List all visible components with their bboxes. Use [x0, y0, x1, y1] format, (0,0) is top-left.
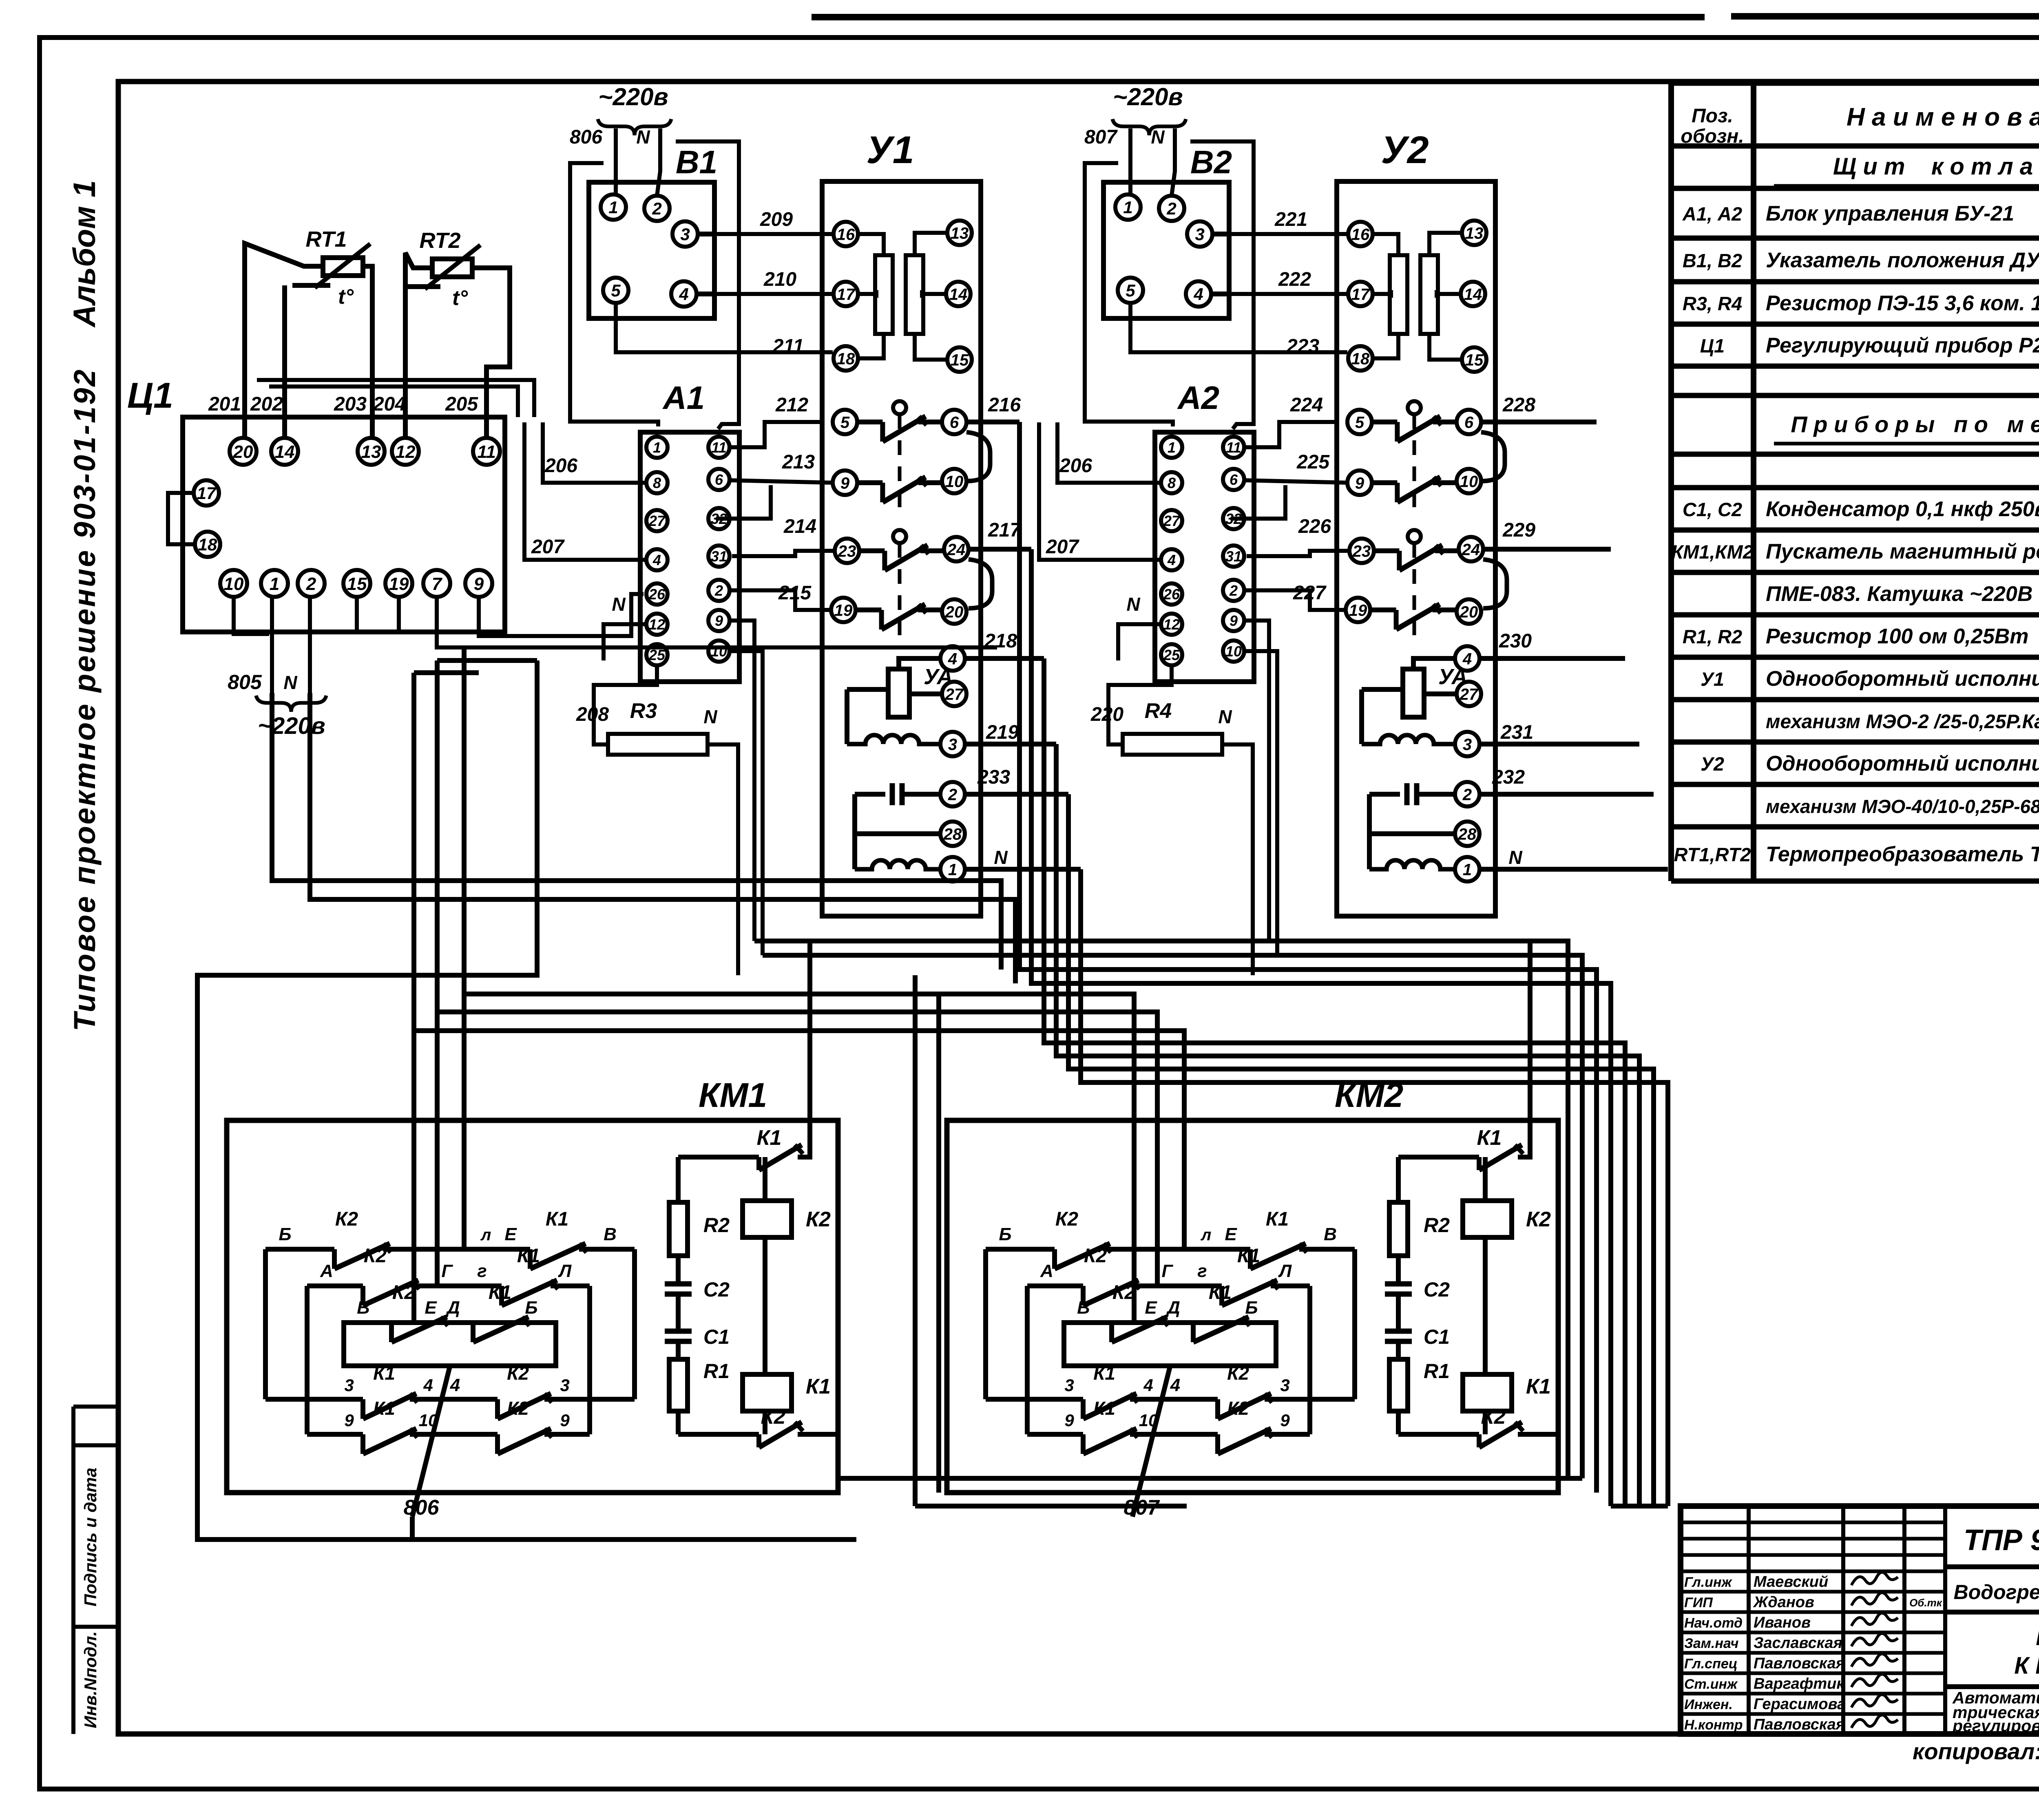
- svg-text:230: 230: [1499, 630, 1532, 652]
- svg-text:В: В: [1077, 1298, 1090, 1318]
- svg-text:К1: К1: [757, 1126, 782, 1150]
- svg-text:1: 1: [948, 861, 957, 879]
- svg-text:Ц1: Ц1: [1700, 335, 1725, 357]
- svg-text:Г: Г: [1161, 1261, 1173, 1281]
- svg-text:17: 17: [837, 285, 856, 303]
- svg-text:А: А: [1040, 1261, 1053, 1281]
- svg-text:10: 10: [945, 473, 964, 490]
- svg-text:N: N: [612, 594, 626, 615]
- svg-text:Конденсатор 0,1 нкф 250в: Конденсатор 0,1 нкф 250в: [1766, 497, 2039, 521]
- svg-text:С1: С1: [1424, 1325, 1450, 1348]
- svg-text:3: 3: [560, 1376, 569, 1395]
- svg-text:К2: К2: [507, 1363, 529, 1384]
- svg-text:Гл.спец: Гл.спец: [1684, 1656, 1738, 1672]
- svg-text:2: 2: [714, 582, 723, 599]
- svg-text:222: 222: [1278, 269, 1311, 290]
- svg-text:10: 10: [1460, 473, 1478, 490]
- svg-text:t°: t°: [452, 286, 468, 310]
- svg-text:Б: Б: [525, 1298, 537, 1318]
- svg-text:2: 2: [1229, 582, 1238, 599]
- svg-text:3: 3: [1463, 736, 1472, 753]
- svg-text:ТПР 903-01-192: ТПР 903-01-192: [1964, 1524, 2039, 1557]
- svg-text:1: 1: [270, 574, 279, 594]
- svg-text:18: 18: [837, 350, 855, 368]
- svg-text:R3, R4: R3, R4: [1683, 293, 1742, 314]
- svg-text:1: 1: [1123, 198, 1132, 217]
- svg-text:Д: Д: [445, 1298, 460, 1318]
- svg-text:24: 24: [1462, 541, 1480, 559]
- svg-text:20: 20: [233, 442, 253, 462]
- svg-text:К1: К1: [1093, 1363, 1115, 1384]
- svg-text:203: 203: [334, 393, 367, 415]
- svg-text:206: 206: [544, 455, 577, 477]
- svg-text:5: 5: [1126, 281, 1135, 300]
- svg-text:Зам.нач: Зам.нач: [1684, 1636, 1739, 1651]
- svg-text:16: 16: [837, 225, 855, 243]
- svg-text:217: 217: [988, 519, 1022, 541]
- svg-text:9: 9: [560, 1411, 570, 1430]
- svg-text:3: 3: [948, 736, 957, 753]
- svg-text:Щ и т к о т л а: Щ и т к о т л а: [1833, 153, 2033, 180]
- svg-text:К1: К1: [373, 1398, 395, 1419]
- svg-text:2: 2: [1462, 786, 1472, 804]
- svg-text:Инв.Nподл.: Инв.Nподл.: [81, 1631, 100, 1728]
- svg-text:2: 2: [652, 199, 661, 218]
- svg-text:13: 13: [951, 224, 969, 242]
- svg-text:механизм МЭО-2 /25-0,25Р.Кату: механизм МЭО-2 /25-0,25Р.Катушка-220В: [1766, 711, 2039, 733]
- svg-text:Павловская: Павловская: [1754, 1655, 1845, 1672]
- svg-text:18: 18: [1351, 350, 1370, 368]
- svg-text:4: 4: [679, 285, 688, 304]
- svg-text:обозн.: обозн.: [1681, 126, 1744, 147]
- svg-text:Варгафтик: Варгафтик: [1754, 1675, 1845, 1692]
- svg-text:20: 20: [945, 603, 964, 621]
- svg-text:3: 3: [344, 1376, 354, 1395]
- svg-text:212: 212: [775, 394, 808, 416]
- svg-text:Однооборотный исполнительный: Однооборотный исполнительный: [1766, 667, 2039, 691]
- svg-text:Л: Л: [1278, 1261, 1292, 1281]
- svg-text:К В - Г М - 10: К В - Г М - 10: [2014, 1652, 2039, 1679]
- svg-text:9: 9: [1280, 1411, 1290, 1430]
- svg-text:28: 28: [943, 825, 962, 843]
- svg-text:л: л: [1201, 1226, 1212, 1244]
- svg-text:К2: К2: [364, 1245, 387, 1267]
- svg-text:Н а и м е н о в а н и е: Н а и м е н о в а н и е: [1847, 103, 2039, 131]
- svg-text:Гл.инж: Гл.инж: [1684, 1575, 1732, 1590]
- svg-text:6: 6: [1230, 471, 1238, 488]
- svg-text:R2: R2: [703, 1214, 730, 1237]
- svg-text:Д: Д: [1165, 1298, 1180, 1318]
- svg-text:2: 2: [306, 574, 316, 594]
- svg-text:К2: К2: [1227, 1363, 1249, 1384]
- svg-text:4: 4: [1167, 552, 1176, 568]
- svg-text:9: 9: [1064, 1411, 1074, 1430]
- svg-text:20: 20: [1460, 603, 1478, 621]
- svg-text:К2: К2: [806, 1208, 831, 1231]
- svg-text:К о т е л: К о т е л: [2036, 1624, 2039, 1650]
- svg-text:17: 17: [197, 484, 217, 503]
- svg-text:В2: В2: [1190, 144, 1232, 180]
- svg-text:~220в: ~220в: [598, 83, 668, 110]
- svg-text:К2: К2: [761, 1405, 786, 1429]
- svg-text:К1: К1: [1477, 1126, 1502, 1150]
- svg-text:Однооборотный исполнительный: Однооборотный исполнительный: [1766, 752, 2039, 775]
- svg-text:К2: К2: [1227, 1398, 1249, 1419]
- svg-text:Указатель положения ДУП-М: Указатель положения ДУП-М: [1766, 249, 2039, 272]
- svg-text:6: 6: [715, 471, 723, 488]
- svg-text:19: 19: [389, 574, 409, 594]
- svg-text:RT1: RT1: [305, 227, 347, 252]
- svg-text:N: N: [1151, 126, 1165, 148]
- svg-text:8: 8: [653, 475, 661, 491]
- svg-text:23: 23: [1352, 542, 1371, 560]
- svg-text:9: 9: [715, 612, 723, 629]
- svg-text:201: 201: [208, 393, 241, 415]
- svg-text:механизм МЭО-40/10-0,25Р-68.Ка: механизм МЭО-40/10-0,25Р-68.Катушка~220В: [1766, 796, 2039, 817]
- svg-text:RT2: RT2: [419, 228, 460, 253]
- svg-text:А1: А1: [662, 380, 705, 416]
- svg-text:13: 13: [361, 442, 381, 462]
- svg-text:215: 215: [778, 582, 812, 604]
- svg-text:К2: К2: [335, 1208, 358, 1230]
- svg-text:805: 805: [228, 671, 262, 694]
- svg-text:9: 9: [1230, 612, 1238, 629]
- svg-text:12: 12: [396, 442, 416, 462]
- svg-text:17: 17: [1351, 285, 1370, 303]
- svg-text:~220в: ~220в: [1113, 83, 1183, 110]
- svg-text:К2: К2: [1084, 1245, 1107, 1267]
- svg-text:А1, А2: А1, А2: [1682, 203, 1742, 225]
- svg-text:18: 18: [198, 535, 217, 554]
- svg-text:204: 204: [373, 393, 406, 415]
- svg-text:N: N: [994, 847, 1008, 868]
- svg-text:К1: К1: [489, 1282, 511, 1303]
- svg-text:231: 231: [1500, 722, 1533, 743]
- svg-text:4: 4: [652, 552, 661, 568]
- svg-text:К1: К1: [1526, 1375, 1551, 1398]
- svg-text:3: 3: [680, 225, 690, 244]
- svg-text:П р и б о р ы п о м е с т: П р и б о р ы п о м е с т у: [1791, 411, 2039, 437]
- svg-text:R1, R2: R1, R2: [1683, 626, 1742, 647]
- svg-text:Б: Б: [999, 1224, 1011, 1244]
- svg-text:Термопреобразователь ТСП-5071: Термопреобразователь ТСП-5071: [1766, 843, 2039, 866]
- svg-text:К1: К1: [1093, 1398, 1115, 1419]
- svg-text:А2: А2: [1177, 380, 1219, 416]
- svg-text:У2: У2: [1381, 128, 1429, 172]
- svg-text:806: 806: [404, 1496, 440, 1520]
- svg-text:Жданов: Жданов: [1753, 1594, 1814, 1611]
- svg-text:209: 209: [760, 209, 793, 230]
- svg-text:10: 10: [224, 574, 244, 594]
- svg-text:R1: R1: [1424, 1360, 1450, 1383]
- svg-text:221: 221: [1274, 209, 1307, 230]
- svg-text:Нач.отд: Нач.отд: [1684, 1615, 1743, 1631]
- svg-text:4: 4: [423, 1376, 433, 1395]
- svg-text:В1, В2: В1, В2: [1683, 250, 1742, 272]
- svg-text:С2: С2: [703, 1278, 730, 1301]
- svg-text:У1: У1: [866, 128, 914, 172]
- svg-text:КМ1,КМ2: КМ1,КМ2: [1671, 541, 1753, 563]
- svg-text:R2: R2: [1424, 1214, 1450, 1237]
- svg-text:806: 806: [570, 126, 602, 148]
- svg-text:г: г: [477, 1261, 487, 1281]
- svg-text:9: 9: [344, 1411, 354, 1430]
- svg-text:К2: К2: [507, 1398, 529, 1419]
- svg-text:R1: R1: [703, 1360, 730, 1383]
- svg-text:4: 4: [1193, 285, 1203, 304]
- svg-text:2: 2: [1166, 199, 1176, 218]
- svg-text:15: 15: [951, 351, 969, 369]
- svg-text:Маевский: Маевский: [1754, 1573, 1828, 1590]
- svg-text:14: 14: [949, 285, 968, 303]
- svg-text:28: 28: [1458, 825, 1477, 843]
- svg-text:19: 19: [1349, 601, 1367, 619]
- svg-text:ПМЕ-083. Катушка ~220В: ПМЕ-083. Катушка ~220В: [1766, 582, 2032, 606]
- svg-text:К1: К1: [1209, 1282, 1232, 1303]
- svg-text:207: 207: [1046, 536, 1079, 558]
- svg-text:1: 1: [1168, 439, 1176, 456]
- svg-text:Герасимова: Герасимова: [1754, 1696, 1846, 1713]
- svg-text:N: N: [1126, 594, 1140, 615]
- svg-text:Б: Б: [1245, 1298, 1258, 1318]
- svg-text:К2: К2: [1481, 1405, 1506, 1429]
- svg-text:R4: R4: [1145, 699, 1172, 723]
- svg-text:1: 1: [653, 439, 661, 456]
- svg-text:Е: Е: [1145, 1298, 1157, 1318]
- svg-text:4: 4: [1143, 1376, 1153, 1395]
- svg-text:210: 210: [763, 269, 796, 290]
- svg-text:3: 3: [1064, 1376, 1074, 1395]
- svg-text:31: 31: [711, 548, 727, 565]
- svg-text:У2: У2: [1701, 753, 1724, 775]
- svg-text:RT1,RT2: RT1,RT2: [1674, 844, 1751, 866]
- svg-text:202: 202: [250, 393, 283, 415]
- svg-text:N: N: [636, 126, 650, 148]
- svg-text:В: В: [604, 1224, 617, 1244]
- svg-text:9: 9: [840, 474, 850, 492]
- svg-text:5: 5: [840, 413, 850, 431]
- svg-text:4: 4: [450, 1375, 460, 1395]
- svg-text:25: 25: [1163, 647, 1180, 663]
- svg-text:С2: С2: [1424, 1278, 1450, 1301]
- svg-text:11: 11: [711, 439, 726, 456]
- svg-text:7: 7: [432, 574, 443, 594]
- svg-text:Альбом 1: Альбом 1: [67, 180, 102, 328]
- svg-text:регулирования топлива.: регулирования топлива.: [1952, 1716, 2039, 1735]
- svg-text:205: 205: [445, 393, 478, 415]
- svg-text:219: 219: [986, 722, 1019, 743]
- svg-text:14: 14: [275, 442, 295, 462]
- svg-text:31: 31: [1225, 548, 1242, 565]
- svg-text:27: 27: [648, 512, 666, 529]
- svg-text:Об.тк: Об.тк: [1909, 1597, 1943, 1609]
- svg-text:1: 1: [608, 198, 618, 217]
- svg-text:ГИП: ГИП: [1684, 1595, 1713, 1610]
- svg-text:Б: Б: [279, 1224, 291, 1244]
- svg-text:N: N: [1218, 706, 1232, 727]
- svg-text:Павловская: Павловская: [1754, 1716, 1845, 1733]
- svg-text:~220в: ~220в: [258, 713, 325, 739]
- svg-text:У1: У1: [1701, 668, 1724, 690]
- svg-text:26: 26: [648, 586, 666, 603]
- svg-text:207: 207: [531, 536, 565, 558]
- svg-text:В: В: [1324, 1224, 1337, 1244]
- svg-text:t°: t°: [338, 285, 354, 309]
- svg-text:1: 1: [1463, 861, 1472, 879]
- svg-text:10: 10: [711, 643, 727, 660]
- svg-text:14: 14: [1464, 285, 1482, 303]
- svg-text:9: 9: [474, 574, 484, 594]
- svg-text:N: N: [703, 706, 717, 727]
- svg-text:УА: УА: [924, 665, 953, 689]
- svg-text:Пускатель магнитный реверсивн: Пускатель магнитный реверсивный: [1766, 540, 2039, 563]
- svg-text:224: 224: [1290, 394, 1323, 416]
- svg-text:Е: Е: [504, 1224, 517, 1244]
- svg-text:Е: Е: [425, 1298, 437, 1318]
- svg-text:Регулирующий прибор Р25. 2: Регулирующий прибор Р25. 2.1: [1766, 334, 2039, 358]
- svg-text:13: 13: [1465, 224, 1484, 242]
- svg-text:12: 12: [649, 616, 665, 633]
- svg-text:К1: К1: [517, 1245, 540, 1267]
- svg-text:5: 5: [611, 281, 621, 300]
- svg-text:12: 12: [1163, 616, 1180, 633]
- svg-text:15: 15: [347, 574, 367, 594]
- svg-text:229: 229: [1502, 519, 1535, 541]
- svg-text:КМ1: КМ1: [699, 1076, 767, 1114]
- svg-text:2: 2: [948, 786, 957, 804]
- svg-text:R3: R3: [630, 699, 657, 723]
- svg-text:206: 206: [1059, 455, 1092, 477]
- svg-text:24: 24: [947, 541, 966, 559]
- svg-text:Резистор ПЭ-15 3,6 ком. 15Вт: Резистор ПЭ-15 3,6 ком. 15Вт: [1766, 292, 2039, 315]
- svg-text:228: 228: [1502, 394, 1535, 416]
- svg-text:Л: Л: [558, 1261, 572, 1281]
- svg-text:Иванов: Иванов: [1754, 1614, 1811, 1631]
- svg-text:Водогрейные котлы типа КВ-Г: Водогрейные котлы типа КВ-ГМ: [1954, 1581, 2039, 1604]
- svg-text:226: 226: [1298, 516, 1331, 537]
- svg-text:N: N: [283, 672, 297, 693]
- svg-text:К1: К1: [373, 1363, 395, 1384]
- svg-text:Н.контр: Н.контр: [1684, 1717, 1743, 1733]
- svg-text:г: г: [1197, 1261, 1207, 1281]
- svg-text:Е: Е: [1225, 1224, 1237, 1244]
- svg-text:С1: С1: [703, 1325, 730, 1348]
- svg-text:23: 23: [838, 542, 856, 560]
- svg-text:25: 25: [648, 647, 666, 663]
- svg-text:4: 4: [1170, 1375, 1180, 1395]
- svg-text:232: 232: [1492, 766, 1525, 788]
- svg-text:Подпись и дата: Подпись и дата: [81, 1468, 100, 1606]
- svg-text:807: 807: [1084, 126, 1118, 148]
- svg-text:11: 11: [1226, 439, 1241, 456]
- svg-text:копировал: Карымова: копировал: Карымова: [1913, 1738, 2039, 1764]
- svg-text:3: 3: [1195, 225, 1204, 244]
- svg-text:Блок управления БУ-21: Блок управления БУ-21: [1766, 202, 2014, 225]
- svg-text:Г: Г: [441, 1261, 453, 1281]
- svg-text:227: 227: [1293, 582, 1327, 604]
- svg-text:3: 3: [1280, 1376, 1289, 1395]
- svg-text:11: 11: [477, 442, 496, 462]
- svg-text:Резистор 100 ом 0,25Вт: Резистор 100 ом 0,25Вт: [1766, 625, 2029, 648]
- svg-text:5: 5: [1355, 413, 1364, 431]
- svg-text:N: N: [1508, 847, 1522, 868]
- svg-text:К1: К1: [546, 1208, 568, 1230]
- svg-text:Заславская: Заславская: [1754, 1634, 1842, 1652]
- svg-text:19: 19: [834, 601, 853, 619]
- svg-text:6: 6: [950, 413, 959, 431]
- svg-text:Типовое проектное решение 9: Типовое проектное решение 903-01-192: [68, 368, 102, 1031]
- svg-text:К1: К1: [1266, 1208, 1289, 1230]
- svg-text:Инжен.: Инжен.: [1684, 1697, 1733, 1712]
- svg-text:л: л: [480, 1226, 491, 1244]
- svg-text:К2: К2: [1055, 1208, 1079, 1230]
- svg-text:В1: В1: [676, 144, 717, 180]
- svg-text:В: В: [357, 1298, 370, 1318]
- svg-text:225: 225: [1296, 451, 1330, 473]
- svg-text:26: 26: [1163, 586, 1180, 603]
- svg-text:216: 216: [988, 394, 1021, 416]
- svg-text:15: 15: [1465, 351, 1484, 369]
- svg-text:10: 10: [1225, 643, 1242, 660]
- svg-text:К1: К1: [806, 1375, 831, 1398]
- svg-text:214: 214: [783, 516, 816, 537]
- svg-text:К2: К2: [1526, 1208, 1551, 1231]
- svg-text:Ц1: Ц1: [127, 375, 173, 415]
- svg-text:218: 218: [984, 630, 1017, 652]
- svg-text:8: 8: [1168, 475, 1176, 491]
- svg-text:6: 6: [1464, 413, 1474, 431]
- svg-text:А: А: [320, 1261, 333, 1281]
- svg-text:С1, С2: С1, С2: [1683, 499, 1742, 520]
- svg-text:Ст.инж: Ст.инж: [1684, 1676, 1738, 1692]
- svg-text:УА: УА: [1438, 665, 1468, 689]
- svg-text:Поз.: Поз.: [1692, 105, 1733, 127]
- svg-text:27: 27: [1163, 512, 1181, 529]
- svg-text:213: 213: [782, 451, 815, 473]
- svg-text:16: 16: [1351, 225, 1370, 243]
- svg-text:К1: К1: [1237, 1245, 1260, 1267]
- svg-text:9: 9: [1355, 474, 1364, 492]
- svg-text:233: 233: [977, 766, 1010, 788]
